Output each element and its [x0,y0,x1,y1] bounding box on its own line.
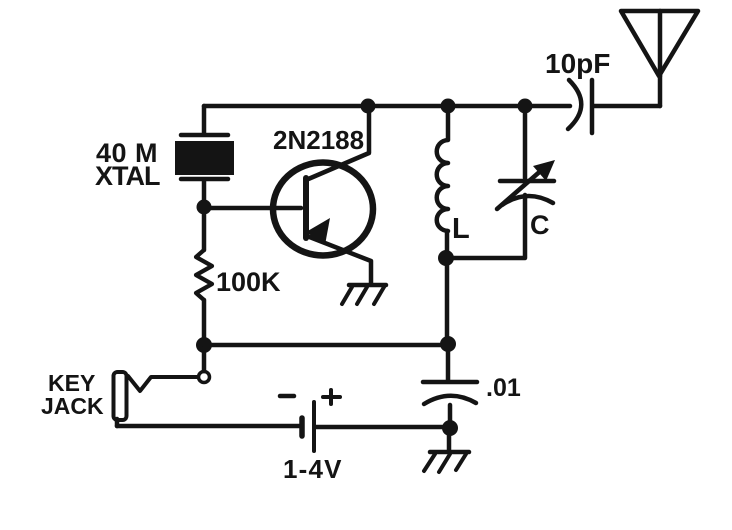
ground bottom [424,428,469,472]
wire L bottom to bypass node [445,258,450,344]
wire LC bottom [446,195,525,258]
wire base [204,206,301,211]
wire top bus left of 10pF [204,104,570,109]
node base junction [197,200,212,215]
svg-text:XTAL: XTAL [95,161,160,191]
key jack J1 [114,352,210,426]
capacitor C2 .01 [423,345,477,426]
node collector junction [361,99,376,114]
resistor R1 100K [196,210,212,340]
node ground junction [442,420,458,436]
wire top bus right of 10pF to antenna [594,104,660,109]
inductor L [437,106,448,253]
node L junction top [441,99,456,114]
svg-text:C: C [530,210,550,240]
node C junction top [518,99,533,114]
variable capacitor C [497,106,555,209]
transistor Q1 2N2188 [273,106,373,283]
node resistor bottom junction [196,337,212,353]
label 40 M XTAL [95,138,160,191]
svg-text:2N2188: 2N2188 [273,125,364,155]
crystal Y1 40M XTAL [175,106,234,204]
wire to bypass cap [204,343,448,348]
battery B1 1-4V [117,390,444,451]
svg-text:100K: 100K [216,267,281,297]
antenna [621,11,698,106]
svg-text:1-4V: 1-4V [283,454,343,484]
node bypass top junction [440,336,456,352]
svg-text:L: L [452,213,470,245]
capacitor 10pF [568,80,592,133]
node LC bottom junction [438,250,454,266]
ground emitter [342,285,386,304]
svg-text:.01: .01 [486,374,521,402]
svg-text:10pF: 10pF [545,48,610,79]
svg-text:JACK: JACK [41,393,104,419]
label KEY JACK [41,370,104,419]
